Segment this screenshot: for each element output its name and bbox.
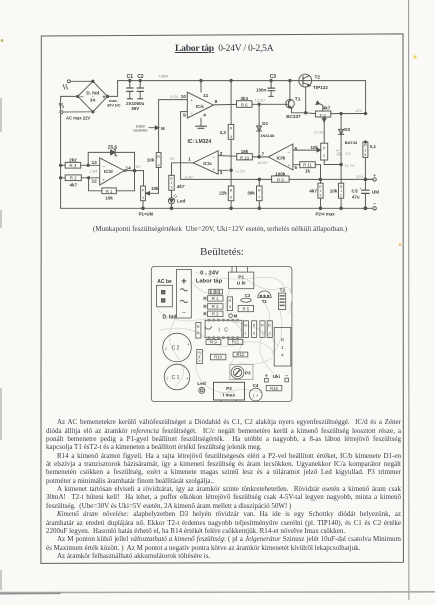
svg-text:C 1: C 1 [172,375,180,381]
svg-text:M: M [234,314,238,319]
svg-text:18k: 18k [241,149,249,154]
capacitor C1 [127,79,133,98]
svg-text:2: 2 [220,151,223,157]
svg-text:max.: max. [109,99,118,103]
svg-text:100n: 100n [256,87,267,92]
svg-text:I C: I C [218,328,229,334]
output terminal - [373,207,376,210]
svg-text:10k: 10k [105,195,113,200]
svg-text:R12: R12 [237,352,245,357]
svg-text:C3: C3 [352,188,358,194]
svg-text:4: 4 [229,305,231,309]
PCB resistor R16 small vertical [197,350,203,364]
resistor R4 10k [156,100,161,194]
potentiometer P2 10k [293,143,341,164]
svg-text:+1.2V: +1.2V [235,168,246,173]
node M external control arrow [149,126,159,130]
svg-text:1: 1 [364,148,366,152]
svg-text:+: + [102,95,106,101]
PCB resistor R10 [210,354,226,360]
PCB pot P1 [229,267,254,289]
resistor R9 100k [272,176,290,182]
svg-text:R 3: R 3 [212,311,219,316]
svg-text:4: 4 [203,113,206,119]
svg-text:C3: C3 [270,74,277,80]
svg-text:I max: I max [223,392,236,398]
wire: output sense line 3,4V [181,178,373,180]
PCB diode D2 [267,321,272,338]
svg-text:12V: 12V [355,108,362,113]
PCB resistor R8 [196,323,201,339]
svg-text:R10: R10 [214,354,222,359]
svg-text:6: 6 [230,196,232,200]
PCB cap C4 [249,388,262,401]
svg-text:Labor táp: Labor táp [196,279,223,285]
scan speck yellow [413,55,416,58]
zener diode Z5,5 [88,149,134,171]
scan page right edge [408,0,410,600]
resistor R5 3k3 vertical [228,79,234,170]
svg-text:+: + [102,177,105,182]
svg-text:Z5,5: Z5,5 [108,144,118,150]
svg-text:C2: C2 [137,74,144,80]
svg-text:13,2V: 13,2V [255,98,266,103]
PCB trimmer P3 [230,364,253,379]
svg-text:4k7: 4k7 [176,184,185,189]
svg-text:R: R [197,325,200,329]
svg-text:T2: T2 [315,75,321,81]
diode D2 BAT43 [339,114,344,166]
svg-text:+: + [288,163,291,168]
svg-text:3A: 3A [90,97,97,102]
svg-text:IC/a: IC/a [203,161,212,166]
PCB resistor R11 [228,340,243,345]
wire: right rail down to 12V node [365,81,367,114]
svg-text:10k: 10k [330,189,338,194]
svg-text:47u: 47u [352,195,360,200]
PCB Led [199,387,205,393]
svg-text:0,1: 0,1 [370,144,377,149]
svg-text:+: + [186,376,189,381]
svg-text:+: + [181,276,187,287]
PCB AC input connector [157,285,173,307]
PCB cap C2 [163,333,192,362]
svg-text:11.7V: 11.7V [345,163,355,168]
svg-text:3: 3 [220,170,223,176]
svg-text:1k: 1k [305,169,311,174]
resistor R10 18k [237,154,269,160]
resistor R8 39k [257,178,263,210]
svg-text:9: 9 [183,113,186,119]
svg-text:D. híd: D. híd [86,91,99,96]
svg-text:BAT43: BAT43 [345,140,358,145]
svg-text:IC/d: IC/d [104,169,113,174]
svg-text:D. híd: D. híd [163,315,177,321]
svg-text:R: R [229,299,232,303]
wire: left AC rail [61,96,78,208]
svg-text:0 - 24V: 0 - 24V [200,270,219,276]
svg-text:R: R [261,323,264,327]
resistor R12 10k [339,165,344,210]
scan speck orange [399,243,402,246]
svg-text:10: 10 [181,94,187,100]
PCB IC LM324 [205,319,242,339]
svg-text:U ki: U ki [237,281,246,287]
svg-text:12V: 12V [356,174,363,179]
svg-text:R: R [157,155,160,159]
svg-text:R: R [364,144,367,148]
resistor R3 2k2 [61,162,100,168]
svg-text:14: 14 [126,166,132,172]
svg-text:22k: 22k [219,191,227,196]
AC input terminal 2 [60,111,93,114]
svg-text:D1: D1 [262,121,268,126]
svg-text:5: 5 [295,165,298,170]
op-amp IC/c [159,79,237,126]
svg-text:Led: Led [177,199,186,205]
output terminal + [365,178,376,181]
resistor R13 4k7 [318,178,323,210]
PCB resistor R15 [266,385,282,390]
svg-text:T2: T2 [280,287,286,292]
svg-text:0V: 0V [136,164,141,169]
resistor R14 0,1 [363,141,368,180]
svg-text:Uki: Uki [372,189,379,195]
PCB resistor R5 [238,306,254,312]
capacitor C2 [137,79,143,98]
svg-text:(: ( [166,375,168,380]
svg-text:C3: C3 [245,293,251,298]
svg-text:35V: 35V [131,106,139,111]
svg-text:+: + [265,374,268,380]
wire: bottom 0V rail [61,207,373,209]
PCB pad M [229,314,233,318]
svg-text:4k7: 4k7 [69,183,77,188]
svg-text:M: M [161,126,165,131]
PCB resistors R1 R2 R3 [203,296,223,317]
svg-text:−: − [373,202,376,208]
svg-text:P2=I max: P2=I max [316,211,336,216]
svg-text:4: 4 [281,353,284,358]
svg-text:TIP122: TIP122 [313,85,328,90]
svg-text:R 2: R 2 [212,304,219,309]
svg-text:(: ( [165,345,167,350]
svg-text:Led: Led [197,381,206,387]
svg-text:2,84: 2,84 [88,168,98,173]
PCB copper traces (faint) [158,272,292,395]
svg-text:4: 4 [199,359,201,363]
svg-text:−: − [288,149,291,154]
svg-text:7: 7 [261,331,263,335]
svg-text:D2: D2 [344,127,350,132]
svg-text:3k3: 3k3 [240,96,248,101]
svg-text:1: 1 [142,196,144,200]
svg-text:–: – [80,95,84,101]
svg-text:8: 8 [215,99,218,105]
svg-text:P 3: P 3 [320,112,327,117]
PCB diode D1 [243,321,248,338]
svg-text:5: 5 [230,135,232,139]
svg-text:16.9V: 16.9V [257,160,268,165]
svg-text:P: P [323,146,326,150]
svg-text:8: 8 [197,331,199,335]
wire: IC/d out to P1 top [143,171,145,186]
svg-text:6: 6 [253,331,255,335]
PCB resistor R4 [227,297,232,311]
PCB resistor R7 [260,321,265,338]
ground under IC/c pin 4 [196,126,207,128]
svg-text:R: R [258,188,261,192]
node: IC/a pin3 +1.2V junction [230,169,233,172]
svg-text:2: 2 [323,154,325,158]
svg-text:+: + [373,173,376,178]
svg-text:4k7: 4k7 [323,105,331,110]
svg-text:–: – [182,310,186,316]
svg-text:R 9: R 9 [210,340,217,345]
svg-text:36V DC: 36V DC [107,104,121,108]
op-amp IC/b [268,144,300,170]
resistor R5k 4k7 with Led [169,163,174,198]
diode D1 1N4148 [257,104,262,157]
svg-text:AC be: AC be [157,279,172,285]
PCB resistor R6 [252,321,257,338]
svg-text:0V: 0V [170,156,175,161]
svg-text:4k7: 4k7 [309,189,317,194]
potentiometer P3 4k7 [305,101,367,143]
PCB cap C1 [164,364,190,390]
PCB resistor R12 [233,352,248,357]
svg-text:1N4148: 1N4148 [260,133,275,138]
svg-text:2: 2 [340,193,342,197]
PCB resistor R9 [206,340,221,345]
transistor T2 TIP122 [299,74,312,87]
svg-text:C1: C1 [127,74,134,80]
svg-text:6: 6 [295,146,298,151]
svg-text:11: 11 [203,93,208,99]
svg-text:100k: 100k [275,171,286,176]
svg-text:1: 1 [245,331,247,335]
svg-text:T1: T1 [295,97,301,103]
svg-text:AC max 22V: AC max 22V [66,116,90,121]
capacitor C4 47u output [362,178,370,210]
svg-text:R: R [230,188,233,192]
svg-text:R 1: R 1 [106,189,113,194]
scan bottom shadow [0,591,435,594]
op-amp IC/d [100,158,144,185]
svg-text:4: 4 [364,153,366,157]
PCB bridge rectifier [177,269,192,318]
svg-text:+: + [187,342,190,347]
svg-text:R 6: R 6 [241,103,248,108]
svg-text:( +: ( + [253,393,259,398]
svg-text:C4: C4 [253,383,259,388]
svg-text:7: 7 [262,151,265,157]
svg-text:R15: R15 [270,386,278,391]
svg-text:3: 3 [171,185,173,189]
AC input terminal 1 [67,80,93,83]
svg-text:Uki: Uki [273,374,280,380]
svg-text:C5: C5 [213,289,219,294]
svg-text:R 10: R 10 [240,155,250,160]
svg-text:11.9V: 11.9V [314,130,324,135]
svg-text:4: 4 [157,163,159,167]
resistor R2 4k7 [61,175,100,181]
svg-text:BC337: BC337 [286,114,301,119]
page border frame [41,34,404,564]
op-amp IC/a [172,151,237,175]
svg-text:T1: T1 [262,299,268,304]
PCB transistor T2 [279,293,286,310]
svg-text:D: D [268,323,271,327]
potentiometer P1 10k [141,186,159,210]
svg-text:13: 13 [91,160,97,166]
PCB pot P2 [214,382,245,401]
svg-text:R: R [281,338,285,343]
svg-text:R 2: R 2 [70,176,77,181]
PCB cap C5 [209,289,223,294]
svg-text:D3: D3 [346,152,351,156]
capacitor C3 100n [268,79,275,96]
svg-text:R 9: R 9 [277,177,284,182]
scan left edge smudges [0,98,2,590]
svg-text:P1=Uki: P1=Uki [139,211,154,216]
svg-text:R11: R11 [232,340,240,345]
svg-text:–: – [285,373,288,379]
svg-text:R 11: R 11 [303,163,312,168]
PCB output pads [265,378,289,382]
svg-text:1: 1 [281,345,284,350]
label ~ terminals [59,84,67,108]
PCB cap C3 [241,298,251,302]
svg-text:39k: 39k [247,191,255,196]
svg-text:3.0V: 3.0V [170,94,179,99]
PCB board outline [151,267,292,402]
svg-text:IC/c: IC/c [196,104,205,109]
resistor R1 10k feedback [89,171,135,194]
resistor R7 22k [228,170,234,209]
svg-text:P3: P3 [245,371,251,376]
svg-text:1: 1 [188,157,191,163]
resistor R6 3k3 [237,101,286,108]
svg-text:+: + [212,167,215,172]
svg-text:P: P [142,188,145,192]
svg-text:2: 2 [269,331,271,335]
svg-text:−: − [190,111,193,116]
wire: IC/c pin9 feedback from output line [180,112,182,180]
svg-text:R 3: R 3 [70,163,77,168]
svg-text:2k2: 2k2 [69,157,77,162]
svg-text:3,4V: 3,4V [185,174,194,179]
svg-text:10k: 10k [151,186,159,191]
svg-text:10k: 10k [310,145,318,150]
scan speck olive left [1,39,4,42]
svg-text:−: − [212,154,215,159]
svg-text:3,3: 3,3 [220,130,227,135]
svg-text:12: 12 [91,178,97,184]
svg-text:R: R [230,126,233,130]
wire: +26V top rail [118,81,366,97]
diode D3 placeholder (dashed) [337,150,342,155]
PCB transistor T1 [258,291,271,298]
svg-text:7: 7 [258,196,260,200]
svg-text:vezérlés: vezérlés [133,129,147,133]
LED overcurrent indicator [168,195,177,210]
svg-text:R 1: R 1 [212,296,219,301]
transistor T1 BC337 [286,79,306,112]
svg-text:P1: P1 [238,275,244,281]
svg-text:R 5: R 5 [243,306,250,311]
svg-text:IC/b: IC/b [277,155,286,160]
svg-text:IC: LM324: IC: LM324 [188,139,212,145]
svg-text:3: 3 [320,193,322,197]
resistor R11 1k [300,162,321,180]
svg-text:+: + [190,98,193,103]
svg-text:D: D [244,323,247,327]
svg-text:R: R [253,323,256,327]
svg-text:10k: 10k [147,157,155,162]
node: R3/R2 taps on left rail [59,164,61,166]
svg-text:+26V: +26V [159,74,169,79]
PCB resistor R14 [274,328,291,367]
svg-text:C 2: C 2 [172,346,180,352]
bridge rectifier D.híd [77,80,118,113]
svg-text:P2: P2 [226,386,232,392]
